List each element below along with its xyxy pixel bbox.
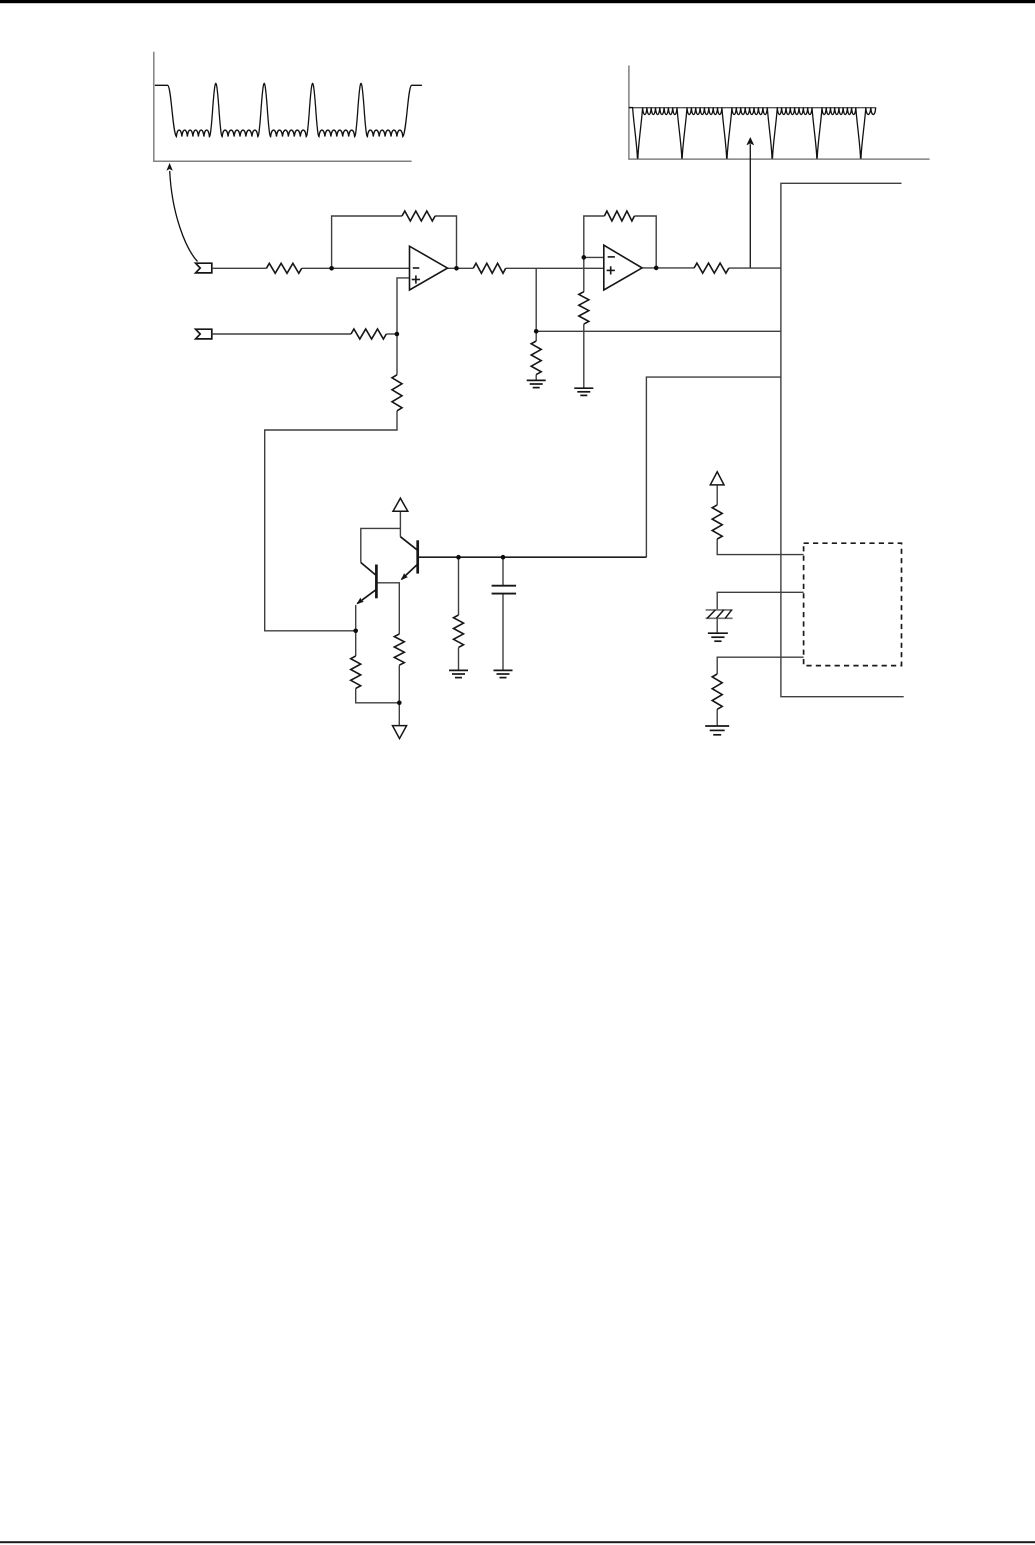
resistor R8 (U2 feedback) — [604, 211, 634, 221]
wire: U1 output to R4 — [448, 267, 474, 269]
V+ supply symbol (right column) — [710, 472, 724, 485]
wire: V+ rail to Q1/Q2 collectors — [361, 511, 401, 562]
junction node G (base line / R10) — [456, 555, 461, 560]
wire: IC block pin down to transistor base — [646, 377, 781, 557]
waveform trace (input signal with sync pulses) — [155, 83, 422, 136]
wire: U2 inverting input node and feedback loop — [584, 216, 656, 268]
wire: node to IC block (middle pin) — [536, 330, 781, 332]
ground (C1) — [494, 670, 513, 677]
wire: node to R3 and feedback run to transistor emitter — [265, 334, 397, 631]
transistor Q1 — [400, 537, 417, 581]
resistor R13 (V+ to block pin) — [712, 505, 722, 539]
resistor R5 (U1 feedback) — [402, 211, 435, 221]
junction node J (V- rail) — [397, 701, 402, 706]
waveform plot axes (input waveform, top-left) — [154, 52, 412, 162]
wire: U1 feedback loop right — [435, 216, 457, 268]
input connector J2 — [196, 329, 212, 339]
resistor R14 (block pin to ground) — [712, 674, 722, 709]
ground (R10) — [449, 670, 468, 677]
wire: node to C1 — [502, 557, 504, 670]
resistor R6 — [694, 263, 729, 273]
page top border — [0, 0, 1035, 3]
V- supply symbol — [393, 726, 407, 739]
resistor R4 — [473, 263, 505, 273]
capacitor C1 — [492, 586, 516, 594]
resistor R9 (U2 inverting to ground) — [579, 292, 589, 324]
resistor R7 — [531, 341, 541, 375]
wire: J2 to R2 — [212, 333, 351, 335]
transistor Q2 — [356, 563, 376, 605]
op-amp U2 — [604, 245, 642, 290]
chassis ground symbol — [706, 610, 733, 618]
wire: node to R9 — [458, 557, 460, 670]
waveform trace (output signal, scalloped with notches) — [629, 108, 876, 159]
junction node E (U2 inverting input) — [582, 255, 587, 260]
IC / module block outline (clipped at right) — [781, 183, 904, 696]
junction node B (U1 output) — [454, 266, 459, 271]
resistor R3 — [392, 375, 402, 411]
annotation arrow from output wire to output waveform — [746, 137, 754, 268]
junction node D (R7 / block pin tap) — [534, 329, 539, 334]
resistor R10 (base node to ground) — [454, 615, 464, 647]
wire: dashed block pin 3 through R13 to ground — [717, 657, 803, 726]
resistor R2 — [351, 329, 386, 339]
junction node H (base line / C1) — [501, 555, 506, 560]
wire: U2 output to R6 — [642, 267, 694, 269]
curved annotation arrow to input waveform — [166, 163, 197, 262]
wire: branch down to R7 — [535, 268, 537, 380]
wire: Q2 base node to R11 — [376, 583, 399, 703]
wire: transistor Q1 base run — [418, 556, 647, 558]
wire: R1 to op-amp U1 inverting input — [302, 267, 410, 269]
wire: dashed block pin 2 to chassis ground — [717, 592, 803, 609]
junction node C (U1 + input) — [395, 332, 400, 337]
page bottom rule — [0, 1541, 1035, 1543]
op-amp U1 — [410, 246, 448, 290]
junction node I (Q2 emitter / feedback) — [353, 629, 358, 634]
V+ supply symbol (transistor pair) — [393, 498, 408, 511]
wire: J1 to R1 — [212, 267, 267, 269]
ground (R9) — [574, 388, 593, 395]
wire: Q2 emitter node, R10 and V- return — [356, 605, 400, 726]
ground (R7) — [527, 380, 546, 387]
wire: chassis symbol to earth ground — [716, 619, 718, 634]
ground (R14) — [705, 726, 729, 735]
waveform plot axes (output waveform, top-right) — [629, 66, 930, 160]
earth ground (below chassis symbol) — [708, 633, 728, 641]
output waveform top reference line — [629, 107, 876, 109]
wire: V+ through R12 to dashed block pin 1 — [717, 485, 803, 555]
wire: R4 to op-amp U2 non-inverting input — [506, 267, 604, 269]
wire: U1 non-inverting input branch — [397, 278, 410, 334]
resistor R11 (Q2 emitter load) — [351, 656, 361, 688]
wire: R6 to IC block (top pin) — [729, 267, 781, 269]
wire: U1 feedback loop left/top — [332, 216, 402, 268]
junction node A (R1 / U1 feedback tap) — [329, 266, 334, 271]
input connector J1 — [196, 263, 212, 273]
wire: U2 inverting node down to R8 and ground — [583, 257, 585, 387]
resistor R1 — [266, 263, 301, 273]
resistor R12 (Q2 base pulldown) — [394, 634, 404, 665]
dashed sub-circuit box — [804, 543, 902, 665]
wire: R2 to node at U1 + input — [386, 333, 397, 335]
junction node F (U2 output) — [654, 266, 659, 271]
